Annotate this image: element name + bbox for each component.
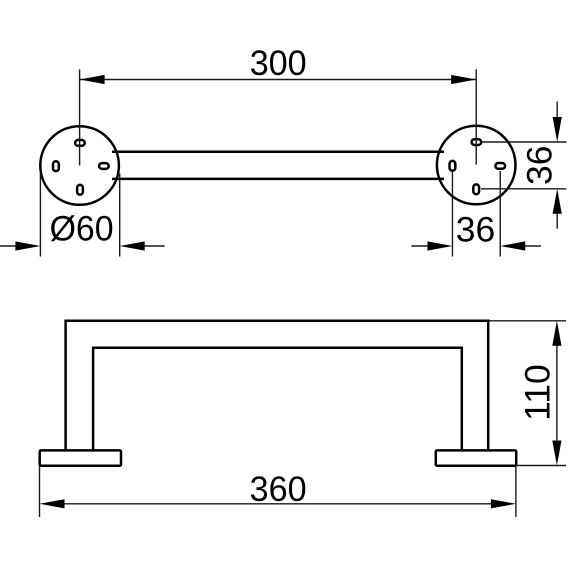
towel bar bottom edge (plan view) [112, 178, 444, 181]
arrowhead 110 top [552, 321, 561, 346]
overall length 360: right extension line [515, 466, 517, 518]
svg-text:300: 300 [250, 43, 307, 83]
arrowhead 36 horizontal right [500, 241, 525, 250]
height 110: top extension line [489, 320, 566, 322]
arrowhead diameter 60 right [120, 241, 145, 250]
diameter 60 dimension line left tail [0, 245, 17, 247]
right flange slot right [495, 163, 505, 169]
height 110: bottom extension line [517, 465, 567, 467]
right flange slot left [450, 161, 456, 171]
diameter 60 extension line left [39, 174, 41, 257]
right flange plate [437, 126, 516, 205]
left base plate [40, 450, 121, 465]
arrowhead 36 vertical bottom [553, 189, 562, 214]
towel bar top edge (plan view) [112, 151, 444, 154]
hole pitch 36 horizontal: dimension line left tail [412, 245, 429, 247]
diameter 60 dimension line right tail [144, 245, 164, 247]
arrowhead 300 right [451, 75, 476, 84]
right flange slot top [472, 139, 482, 145]
hole pitch 36 horizontal: right extension line [499, 171, 501, 257]
overall length 360: dimension line [64, 503, 492, 505]
svg-text:360: 360 [250, 469, 307, 509]
arrowhead 360 left [40, 499, 65, 508]
arrowhead 36 horizontal left [427, 241, 452, 250]
hole pitch 36 vertical: dimension line upper tail [556, 102, 558, 118]
hole pitch 36 horizontal: left extension line [451, 172, 453, 257]
right base plate [436, 450, 516, 465]
right flange centre line [475, 70, 477, 165]
arrowhead 110 bottom [552, 441, 561, 466]
left flange slot bottom [77, 185, 83, 195]
arrowhead 300 left [80, 75, 105, 84]
diameter 60 extension line right [119, 174, 121, 257]
hole pitch 36 vertical: dimension line lower tail [556, 213, 558, 228]
arrowhead 360 right [491, 499, 516, 508]
overall length 360: left extension line [39, 466, 41, 517]
hole pitch 36 horizontal: dimension line right tail [525, 245, 541, 247]
left flange slot top [75, 140, 85, 146]
left flange slot right [99, 163, 109, 169]
dimension line 300 [80, 79, 477, 81]
side view outer profile [66, 321, 489, 452]
height 110: dimension line [556, 345, 558, 441]
left flange plate [40, 126, 119, 205]
side view inner profile [93, 348, 462, 451]
right flange slot bottom [473, 184, 479, 194]
arrowhead 36 vertical top [553, 117, 562, 142]
left flange centre line [79, 70, 81, 166]
svg-text:Ø60: Ø60 [50, 209, 114, 249]
hole pitch 36 vertical: top extension line [482, 141, 567, 143]
left flange slot left [53, 161, 59, 171]
arrowhead diameter 60 left [15, 241, 40, 250]
svg-text:36: 36 [519, 145, 559, 185]
svg-text:110: 110 [517, 364, 557, 421]
svg-text:36: 36 [456, 210, 496, 250]
hole pitch 36 vertical: bottom extension line [481, 188, 567, 190]
